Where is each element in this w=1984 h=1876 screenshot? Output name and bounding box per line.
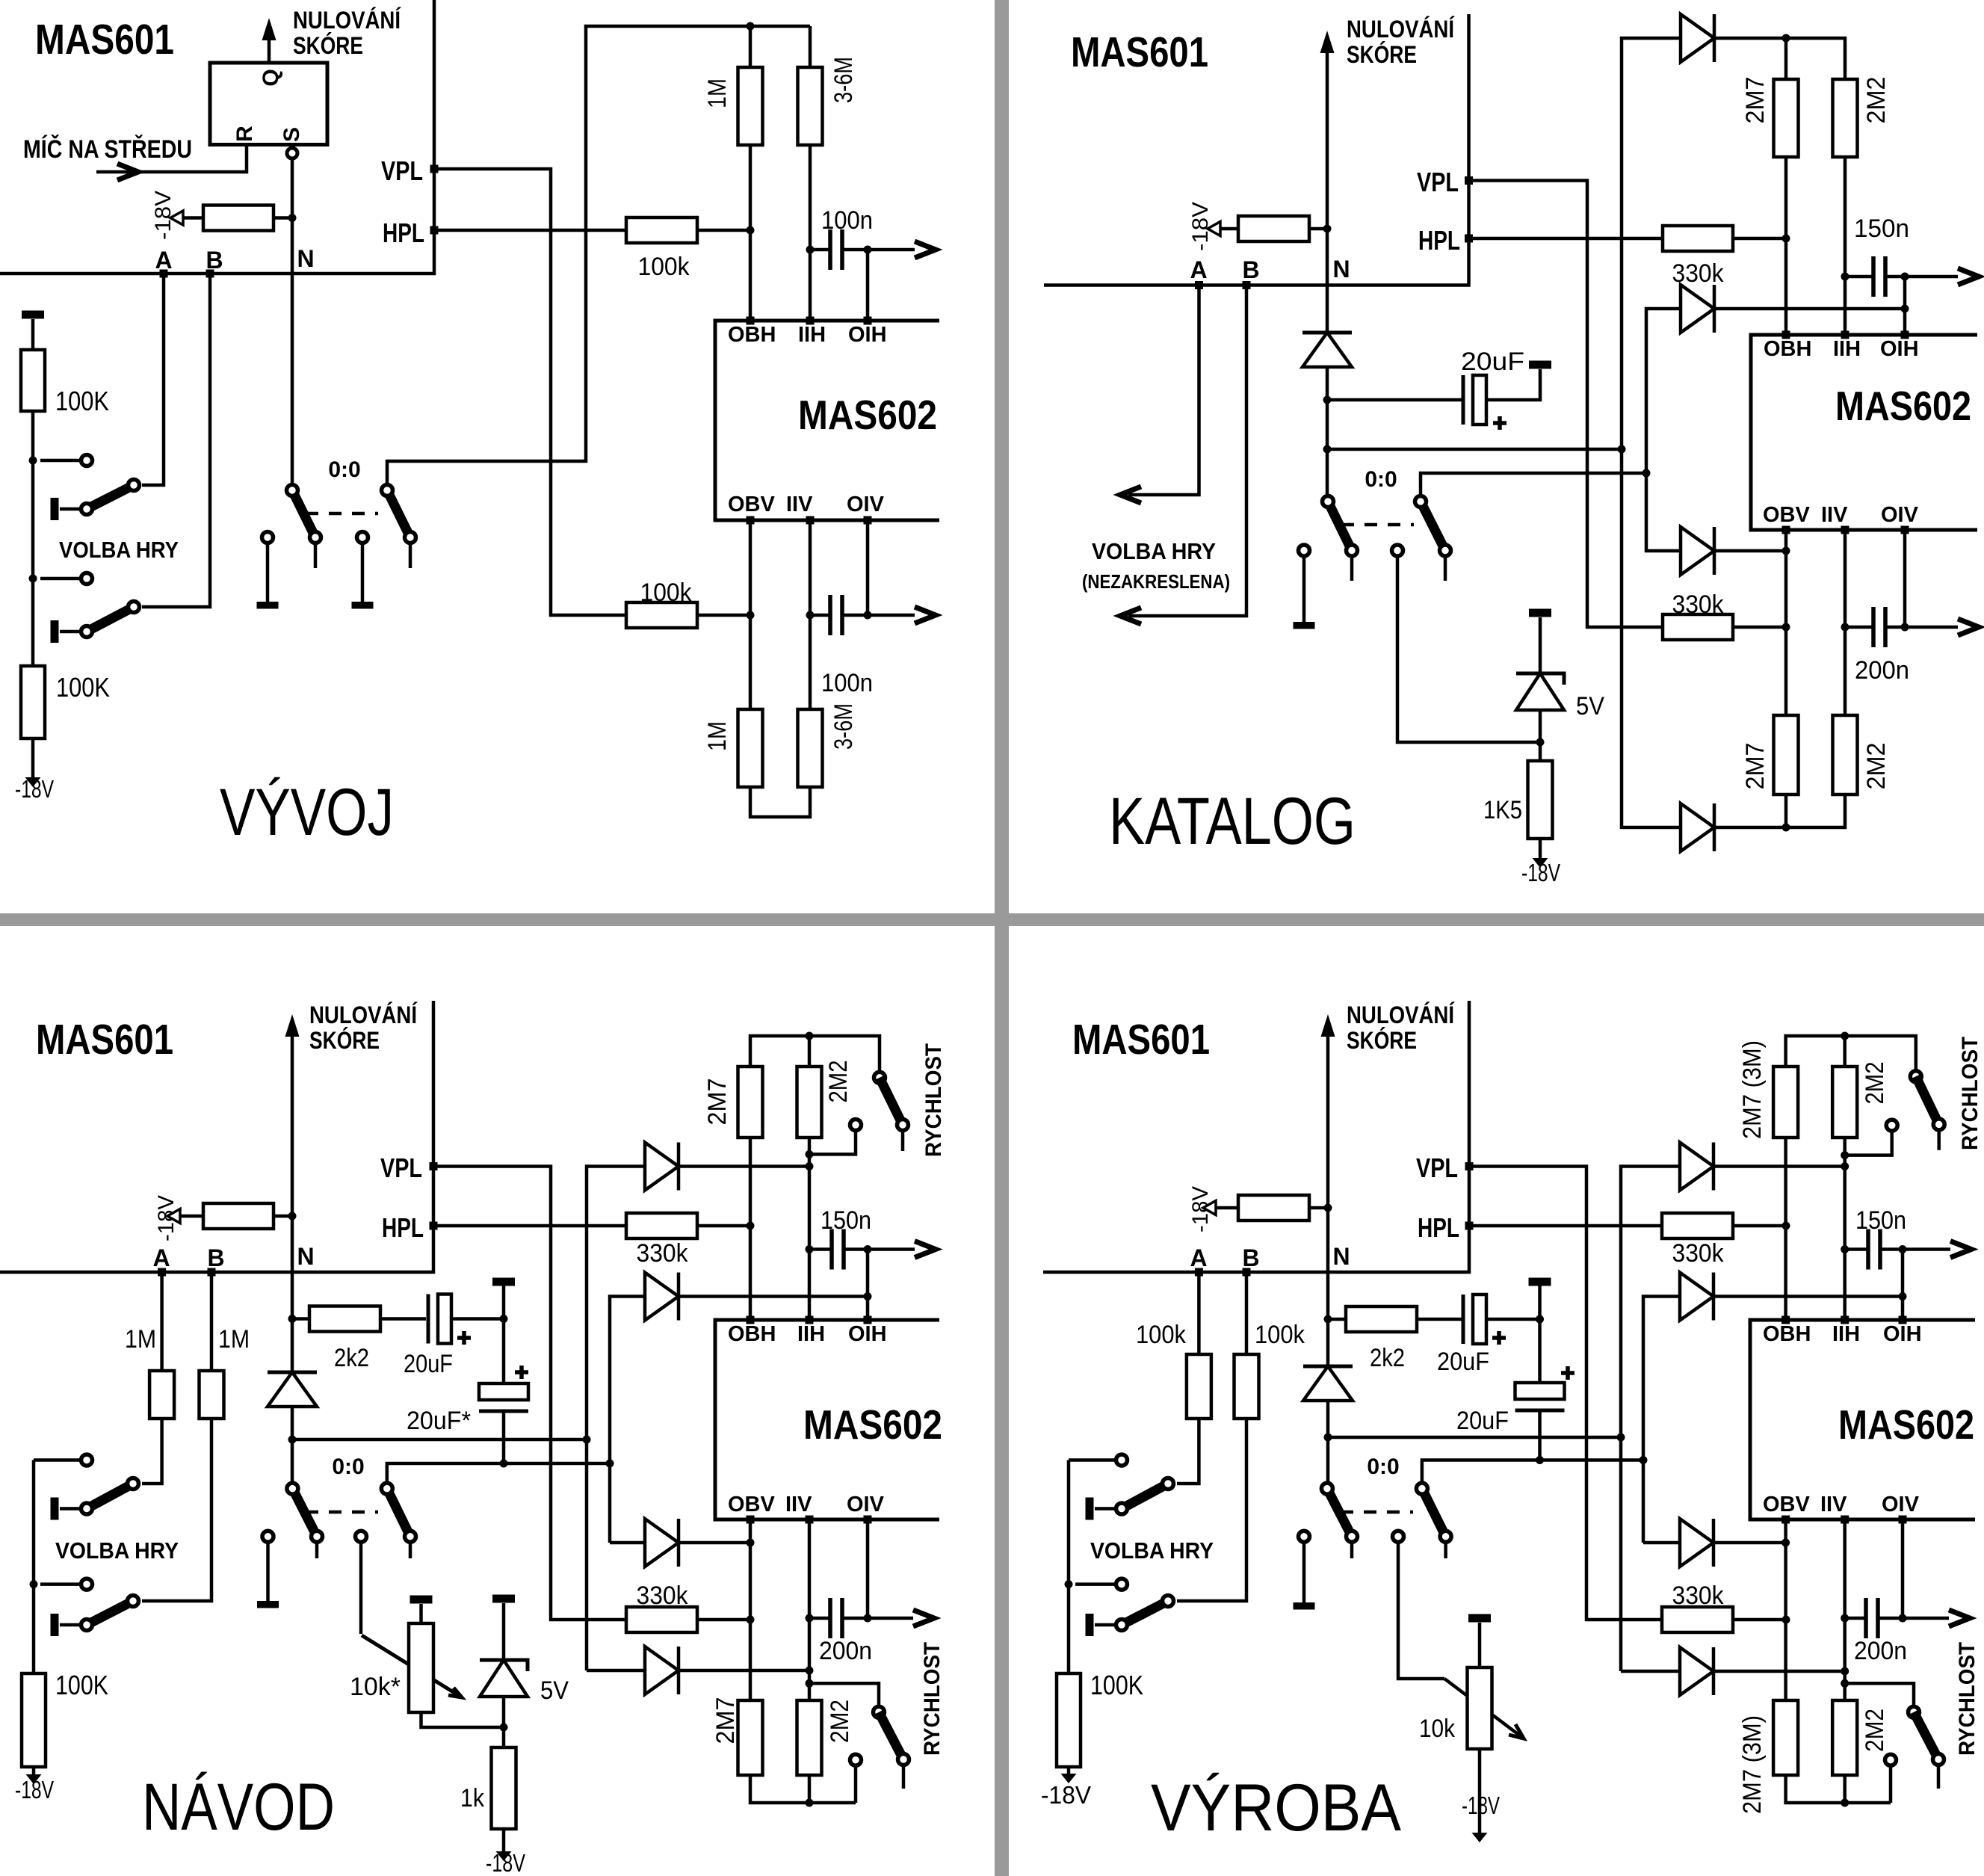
node B [205,247,223,278]
resistor 100k A (Q4) [1136,1321,1211,1419]
wire 20uF-v to 0:0 rail (Q4) [1538,1410,1542,1460]
junction OIV cap (Q2) [1901,623,1909,632]
arrow -18V down (Q2) [1533,858,1548,868]
wire nulovani arrow (Q4) [1321,1014,1335,1366]
junction diode rail (Q3) [583,1436,591,1444]
capacitor 150n (Q3) [809,1206,871,1270]
diode D3 (Q2) [1681,527,1714,575]
capacitor 100n upper [810,206,873,270]
wire 100K to -18V (Q4) [1067,1767,1071,1779]
switch RYCHLOST lower (Q4) [1845,1683,1944,1803]
switch 0:0 right lever [382,485,416,569]
svg-text:-18V: -18V [151,191,176,240]
capacitor 20uF (Q3) [404,1295,471,1379]
svg-text:330k: 330k [637,1239,689,1268]
svg-text:IIH: IIH [1832,1322,1860,1346]
wire terminal-zener (Q3) [502,1603,506,1659]
svg-text:NÁVOD: NÁVOD [142,1769,335,1844]
resistor 2M7 upper (Q3) [703,1067,763,1320]
wire 330k to OBH (Q3) [697,1224,750,1228]
wire 100K to -18V [31,738,35,782]
wire cap to OIH (Q3) [844,1247,868,1251]
switch 0:0 left lever (Q4) [1321,1483,1357,1558]
junction N/-18V (Q2) [1323,225,1332,233]
switch 0:0 right lever (Q3) [381,1483,415,1558]
node VPL (Q2) [1417,167,1473,197]
resistor 330k lower (Q2) [1663,590,1733,640]
switch 0:0 left lever (Q3) [287,1483,323,1558]
svg-text:330k: 330k [1672,590,1725,619]
svg-text:-18V: -18V [486,1849,525,1876]
svg-text:2M2: 2M2 [826,1700,854,1743]
resistor 100K (Q3) [22,1670,108,1767]
capacitor 200n (Q4) [1845,1598,1907,1665]
resistor R-set (Q3) [203,1203,274,1229]
wire IIV net [809,520,812,709]
wire diode4 feed (Q4) [1621,1670,1680,1673]
diode D4 (Q3) [645,1647,679,1694]
svg-text:330k: 330k [637,1582,689,1610]
wire N to 2k2 (Q4) [1328,1318,1346,1321]
wire A to switch (Q3) [142,1419,162,1484]
wire bus (Q3) [0,1001,433,1272]
contact right to pot (Q3) [356,1531,367,1634]
pin IIH (Q4) [1832,1316,1860,1347]
wire A arrow (Q2) [1120,286,1199,504]
svg-text:100n: 100n [821,669,873,697]
wire cap to OIH (Q2) [1885,275,1905,279]
junction diode rail (Q4) [1617,1434,1625,1442]
resistor 1M A (Q3) [125,1325,174,1419]
svg-text:150n: 150n [1855,1206,1906,1235]
junction IIV diode4 (Q3) [806,1667,814,1675]
label KATALOG [1109,783,1356,858]
junction N/-18V (Q3) [288,1212,297,1221]
node A (Q4) [1190,1244,1207,1277]
svg-text:10k*: 10k* [350,1673,401,1701]
resistor 330k lower (Q4) [1662,1582,1733,1632]
label NEZAKRESLENA (Q2) [1082,570,1230,593]
wire terminal-100K [31,319,35,350]
wire D2 out (Q2) [1714,307,1905,311]
label 0:0 (Q4) [1367,1454,1399,1479]
label VOLBA HRY (Q3) [55,1537,179,1564]
svg-text:1K5: 1K5 [1483,796,1522,824]
diode D1 (Q4) [1680,1143,1713,1191]
label NAVOD [142,1769,335,1844]
wire video out H (Q4) [1903,1241,1971,1258]
svg-text:100k: 100k [638,253,690,281]
wire diode3 feed (Q3) [610,1541,645,1545]
wire 2M7 bottom (Q2) [1784,794,1788,827]
wire N lower (Q2) [1326,367,1329,494]
wire cap to OIV [842,614,868,617]
svg-text:NULOVÁNÍ: NULOVÁNÍ [1347,1002,1455,1028]
svg-text:2M7 (3M): 2M7 (3M) [1738,1040,1767,1139]
wire 0:0 pivot to top rail [387,26,810,483]
wire 100k to OBH [697,229,750,232]
label RYCHLOST lower (Q4) [1955,1642,1980,1756]
terminal 20uF (Q4) [1529,1278,1551,1320]
wire node to 20uF* (Q3) [502,1319,506,1384]
wire bus A-B-N [0,0,434,274]
svg-text:RYCHLOST: RYCHLOST [1958,1037,1983,1150]
wire N to diode1 (Q2) [1327,448,1622,451]
svg-text:OBH: OBH [728,1322,776,1346]
wire N to diode rail (Q4) [1328,1436,1621,1440]
pin OIH (Q2) [1880,331,1919,362]
label NULOVANI SKORE (Q4) [1347,1002,1455,1054]
node B (Q4) [1242,1244,1259,1277]
junction RYCHLOST lower (Q3) [806,1679,814,1688]
wire IIV net (Q4) [1843,1519,1847,1700]
wire OIH [866,250,870,321]
junction IIV cap (Q2) [1841,623,1849,632]
svg-text:150n: 150n [821,1206,871,1235]
junction diode4 out (Q2) [1782,824,1790,832]
wire N lower (Q4) [1326,1401,1330,1483]
pin OBV [728,493,776,525]
pin IIH (Q3) [797,1316,825,1347]
svg-text:IIV: IIV [1820,1493,1847,1516]
junction N diode feed (Q3) [288,1436,297,1444]
label VOLBA HRY (Q4) [1090,1537,1214,1564]
svg-text:RYCHLOST: RYCHLOST [921,1043,946,1157]
svg-text:A: A [1190,256,1207,283]
junction RYCHLOST (Q4) [1841,1151,1849,1159]
wire cap to OIH [842,248,868,252]
wire 1k to -18V (Q3) [502,1829,506,1855]
junction 20uF (Q2) [1323,396,1332,404]
svg-text:OIV: OIV [847,493,885,516]
svg-text:IIV: IIV [786,493,813,516]
pin OBH (Q4) [1763,1316,1811,1347]
wire U bottom (Q4) [1786,1775,1891,1803]
wire 330k to OBV (Q4) [1733,1618,1786,1622]
terminal pot (Q3) [410,1596,433,1624]
wire nulovani-skore arrow [262,18,276,63]
label -18V (rotated) [151,191,176,240]
wire IIV net (Q3) [808,1519,812,1700]
svg-text:OIV: OIV [1881,503,1919,527]
resistor 330k upper (Q2) [1663,226,1733,288]
wire 330k to OBV (Q3) [697,1618,750,1622]
wire N to 20uF (Q2) [1327,398,1462,402]
capacitor 100n lower [810,595,873,697]
svg-text:3-6M: 3-6M [829,703,858,750]
wire video out H (Q3) [868,1241,936,1258]
contact left + ground (Q4) [1294,1531,1315,1609]
svg-text:2M2: 2M2 [1861,1062,1889,1105]
svg-text:2M7: 2M7 [1741,77,1770,124]
junction OBV diode3 (Q2) [1782,547,1790,555]
wire 330k to OBH (Q2) [1733,237,1786,241]
wire cap to OIV (Q4) [1878,1617,1903,1620]
switch 0:0 right lever (Q2) [1415,496,1451,581]
junction 2M2 top (Q4) [1841,1032,1849,1040]
svg-text:2M2: 2M2 [1862,77,1891,124]
diode D3 (Q4) [1680,1519,1713,1567]
wire D3 out (Q4) [1713,1541,1786,1545]
svg-text:VÝVOJ: VÝVOJ [220,774,394,849]
label -18V rotated (Q4) [1188,1186,1213,1232]
diode D2 (Q4) [1680,1273,1713,1321]
pot wiper (Q4) [1444,1679,1524,1738]
wire resistor to N (Q2) [1309,227,1327,231]
wire HPL to upper 100k [438,229,626,232]
node A (Q2) [1190,256,1207,289]
wire pot bottom (Q4) [1478,1749,1482,1836]
wire U bottom (Q3) [750,1775,856,1803]
svg-text:100n: 100n [821,206,873,235]
resistor 1M lower [703,709,763,787]
wire N net [291,158,294,483]
resistor R-set [203,206,274,231]
resistor 2M2 upper (Q2) [1833,77,1891,336]
capacitor 200n (Q3) [809,1598,872,1665]
wire -18V to resistor (Q2) [1220,227,1238,231]
svg-text:A: A [152,1244,170,1271]
pin OBV (Q4) [1763,1493,1811,1524]
divider vertical [995,0,1009,1876]
junction sw2 [29,575,37,583]
label 0:0 (Q3) [332,1454,364,1479]
switch RYCHLOST upper (Q3) [809,1072,909,1154]
svg-text:IIV: IIV [785,1493,812,1516]
wire node to 20uF-v (Q4) [1538,1319,1542,1383]
svg-text:NULOVÁNÍ: NULOVÁNÍ [293,7,401,34]
wire 0:0 riser (Q3) [387,1463,610,1481]
wire video out H [868,241,936,258]
svg-text:MAS601: MAS601 [36,1016,173,1064]
junction 20uF* rail (Q3) [500,1460,508,1468]
wire 20uF* to 0:0 rail (Q3) [502,1411,506,1463]
wire top rail (Q3) [750,1036,880,1072]
label -18V bottom [15,775,54,803]
mech coupling dashed (Q3) [306,1511,378,1514]
mech coupling dashed [306,512,378,516]
wire 100K to -18V (Q3) [32,1767,36,1779]
svg-text:IIV: IIV [1821,503,1848,527]
resistor 100k upper [626,217,697,281]
label -18V zener (Q3) [486,1849,525,1876]
junction zener (Q2) [1536,738,1545,747]
pin OIV (Q4) [1882,1493,1920,1524]
wire pot bottom (Q3) [421,1712,504,1727]
wire diode1 riser (Q4) [1621,1167,1680,1672]
resistor 3-6M upper [798,26,859,321]
arrow -18V (Q2) [1208,222,1220,236]
junction sw1 [29,457,37,465]
wire cap to OIV (Q3) [842,1617,868,1620]
diode D4 (Q4) [1680,1647,1713,1695]
wire zener to junction (Q2) [1539,710,1542,761]
pin OBH (Q3) [728,1316,776,1347]
svg-text:1M: 1M [125,1325,156,1354]
arrow -18V down left (Q4) [1061,1774,1077,1783]
mech coupling dashed (Q4) [1341,1511,1413,1514]
wire OBV net (Q2) [1784,530,1788,715]
svg-text:-18V: -18V [15,775,54,803]
wire diode3 feed (Q4) [1643,1541,1680,1545]
resistor 100K lower [21,666,110,738]
wire B net [142,274,210,607]
svg-text:100K: 100K [55,1670,108,1700]
wire 100K chain [31,411,35,666]
svg-text:20uF: 20uF [404,1350,453,1378]
switch RYCHLOST lower (Q3) [809,1683,909,1803]
wire OIH (Q3) [866,1250,870,1321]
svg-text:HPL: HPL [382,1212,424,1243]
capacitor 20uF* (Q3) [407,1366,528,1435]
junction zener (Q3) [500,1724,508,1732]
junction OIV cap (Q4) [1899,1614,1907,1623]
svg-text:B: B [1242,1244,1259,1271]
wire resistor to N [274,216,292,220]
svg-text:20uF: 20uF [1461,348,1524,376]
resistor 2M7 lower (Q3) [711,1697,763,1776]
pin OIV (Q2) [1881,503,1919,534]
pin IIH [798,317,826,348]
capacitor 20uF (Q2) [1461,348,1524,430]
node HPL (Q3) [382,1212,438,1243]
resistor 1k (Q3) [460,1747,516,1829]
svg-text:A: A [155,247,172,274]
label VYROBA [1151,1770,1402,1845]
junction OBV [747,611,755,620]
pin IIV [786,493,815,525]
label RYCHLOST lower (Q3) [920,1642,945,1756]
node A (Q3) [152,1244,170,1277]
resistor 100k lower [626,578,697,628]
junction OIH diode (Q2) [1901,305,1909,313]
resistor 2M2 upper (Q3) [797,1036,853,1320]
resistor 2M7 lower (Q2) [1741,715,1799,794]
wire N lower (Q3) [291,1407,294,1483]
wire OBV net [749,520,753,709]
junction top rail 1M [747,22,755,31]
wire OIV (Q3) [866,1519,870,1618]
resistor 100K upper [21,350,109,416]
wire left chain (Q4) [1067,1460,1071,1674]
svg-text:5V: 5V [540,1676,569,1705]
junction OIH diode (Q3) [864,1292,872,1300]
wire HPL to upper 330k (Q3) [437,1224,626,1228]
IC MAS602 [715,321,939,520]
wire cap to OIH (Q4) [1880,1247,1903,1251]
wire 20uF to node (Q3) [451,1317,504,1321]
resistor 1K5 (Q2) [1483,761,1553,839]
wire video out V [868,607,936,623]
label NULOVANI SKORE [293,7,401,59]
junction OBH/HPL (Q4) [1782,1222,1790,1230]
junction N/-18V (Q4) [1324,1204,1332,1212]
svg-text:SKÓRE: SKÓRE [1347,41,1417,68]
svg-text:150n: 150n [1854,215,1909,243]
wire OIV [866,520,870,615]
switch game2 (Q4) [1075,1579,1174,1636]
svg-text:N: N [297,1243,314,1270]
svg-text:-18V: -18V [1041,1781,1091,1809]
svg-text:SKÓRE: SKÓRE [1347,1027,1417,1054]
wire HPL to upper 330k (Q2) [1473,237,1663,241]
svg-text:MAS602: MAS602 [1838,1401,1974,1448]
junction 2M7 top (Q2) [1782,34,1790,43]
contact right + ground [352,532,374,609]
svg-text:KATALOG: KATALOG [1109,783,1356,858]
wire B to switch (Q3) [142,1419,211,1601]
svg-text:0:0: 0:0 [1365,467,1397,492]
svg-text:330k: 330k [1672,1582,1725,1610]
junction OIH diode (Q4) [1899,1292,1907,1300]
svg-text:SKÓRE: SKÓRE [293,32,363,59]
terminal pot (Q4) [1468,1614,1491,1668]
svg-text:20uF*: 20uF* [407,1407,471,1435]
diode D4 (Q2) [1681,803,1714,851]
junction OBH/HPL [747,226,755,235]
svg-text:OBH: OBH [728,323,776,347]
svg-text:2M2: 2M2 [1861,1709,1889,1752]
wire A net (Q4) [1197,1272,1201,1354]
arrow -18V (Q4) [1203,1201,1216,1215]
wire diode1 riser (Q3) [587,1167,645,1671]
svg-text:N: N [1332,1243,1350,1270]
svg-text:IIH: IIH [797,1322,825,1346]
label VOLBA HRY [59,537,179,563]
wire 20uF to terminal (Q2) [1486,369,1540,400]
wire -18V to resistor (Q4) [1216,1206,1238,1210]
junction OIH cap [864,246,872,254]
resistor R-set (Q4) [1238,1195,1309,1221]
pin S circle [287,148,297,158]
label 0:0 (Q2) [1365,467,1397,492]
svg-text:OIV: OIV [847,1493,885,1516]
svg-text:Q: Q [259,69,283,86]
wire OIV (Q4) [1901,1519,1905,1618]
label NULOVANI SKORE (Q2) [1347,16,1455,68]
svg-text:S: S [279,127,304,142]
junction 2M2 top (Q3) [806,1032,814,1040]
svg-text:OBH: OBH [1764,337,1811,361]
wire B arrow (Q2) [1120,286,1246,625]
pot 10k* body (Q3) [350,1623,433,1712]
svg-text:MAS601: MAS601 [35,16,174,64]
wire diode4 riser (Q2) [1622,449,1681,827]
svg-text:OBV: OBV [728,493,776,516]
junction diode1 riser (Q2) [1618,445,1626,454]
switch RYCHLOST upper (Q4) [1845,1071,1945,1155]
label -18V rotated (Q2) [1188,202,1213,251]
zener diode 5V (Q2) [1516,673,1604,721]
junction OBH/HPL (Q3) [747,1222,755,1230]
pin OBH (Q2) [1764,331,1811,362]
arrow -18V down [25,777,41,787]
wire diode3 riser (Q2) [1646,473,1681,551]
junction 2M2 bottom (Q3) [806,1799,814,1807]
svg-text:200n: 200n [1855,656,1909,685]
node VPL (Q4) [1416,1153,1474,1183]
svg-text:2M2: 2M2 [1862,743,1891,790]
contact left + ground (Q2) [1294,545,1315,629]
resistor 3-6M lower [798,703,859,787]
wire D4 out (Q3) [679,1669,809,1673]
diode D1 (Q3) [645,1143,679,1191]
junction diode2 rail (Q4) [1640,1456,1648,1464]
svg-text:OIV: OIV [1882,1493,1920,1516]
svg-text:OIH: OIH [848,1322,887,1346]
wire D2 out (Q3) [679,1295,868,1298]
wire 0:0 riser (Q4) [1422,1460,1643,1482]
